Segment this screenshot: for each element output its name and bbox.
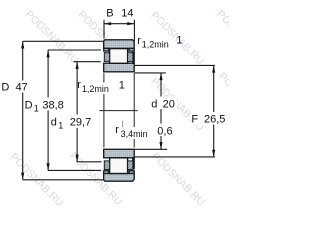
d bottom extension line <box>135 148 167 150</box>
center axis line <box>99 110 138 112</box>
label F 26,5 <box>191 113 225 125</box>
svg-text:0,6: 0,6 <box>157 125 172 137</box>
label r1,2min 1 top right <box>137 35 182 50</box>
d down arrow <box>159 142 162 149</box>
D bottom extension line <box>23 179 104 181</box>
label d 20 <box>151 99 175 111</box>
watermark PODSNAB.RU bottom-mid <box>67 150 125 208</box>
watermark PODSNAB.RU bottom-right <box>149 150 207 208</box>
left face bore line <box>103 73 105 147</box>
F down arrow <box>212 150 215 157</box>
svg-text:F: F <box>191 113 198 125</box>
svg-text:D: D <box>1 82 9 94</box>
d top extension line <box>135 72 166 74</box>
watermark PODSNAB.RU bottom-left <box>7 151 65 209</box>
svg-text:r: r <box>115 124 119 136</box>
svg-text:B: B <box>106 8 113 20</box>
B right arrow <box>127 22 134 25</box>
F top extension line <box>135 64 215 66</box>
B left arrow <box>104 22 111 25</box>
outer ring left flange (upper) <box>104 48 109 51</box>
cage bar right (lower) <box>128 161 133 170</box>
B right extension line <box>133 20 135 41</box>
D up arrow <box>21 41 24 48</box>
label 0,6 <box>157 125 172 137</box>
svg-text:1: 1 <box>119 80 125 92</box>
svg-text:29,7: 29,7 <box>70 116 91 128</box>
outer ring left flange (lower) <box>104 171 109 174</box>
F up arrow <box>212 65 215 72</box>
inner ring right flange sliver (lower) <box>133 158 134 169</box>
outer ring right flange (upper) <box>129 48 134 51</box>
D1 top extension line <box>48 49 101 51</box>
svg-text:d: d <box>151 99 157 111</box>
watermark PODSNAB.RU top corner <box>214 8 272 66</box>
r3,4 leader tick <box>122 121 124 128</box>
svg-text:1: 1 <box>58 120 63 130</box>
svg-text:r: r <box>77 79 81 91</box>
right face bore line <box>133 73 135 147</box>
watermark PODSNAB.RU mid <box>148 76 206 134</box>
outer ring upper section <box>104 40 135 49</box>
cage bar left (upper) <box>104 53 109 62</box>
D top extension line <box>23 40 104 42</box>
watermark PODSNAB.RU top-mid <box>75 9 133 67</box>
watermark PODSNAB.RU mid-right <box>216 70 274 128</box>
d1 bottom extension line <box>77 161 102 163</box>
d1 top extension line <box>74 61 101 63</box>
D1 bottom extension line <box>48 169 101 171</box>
svg-text:14: 14 <box>121 8 133 20</box>
cage bar right (upper) <box>128 53 133 62</box>
svg-text:3,4min: 3,4min <box>121 129 148 139</box>
d dimension line <box>160 73 162 149</box>
watermark PODSNAB.RU top-right <box>148 9 206 67</box>
B dimension line <box>104 23 134 25</box>
F bottom extension line <box>135 156 215 158</box>
svg-text:1,2min: 1,2min <box>82 84 109 94</box>
outer ring lower section <box>104 174 135 182</box>
svg-text:d: d <box>51 116 57 128</box>
F dimension line <box>213 65 215 156</box>
svg-text:38,8: 38,8 <box>42 99 63 111</box>
svg-text:r: r <box>137 35 141 47</box>
d1 up arrow <box>76 62 79 69</box>
D dimension line <box>22 41 24 180</box>
label D1 38,8 <box>25 99 64 113</box>
D1 dimension line <box>47 50 49 170</box>
d up arrow <box>159 73 162 80</box>
svg-text:20: 20 <box>163 99 175 111</box>
svg-text:47: 47 <box>16 82 28 94</box>
label r3,4min <box>115 124 147 139</box>
label D 47 <box>1 82 27 94</box>
svg-text:1: 1 <box>34 103 39 113</box>
B left extension line <box>103 20 105 39</box>
svg-text:D: D <box>25 99 33 111</box>
D1 down arrow <box>47 163 50 170</box>
D down arrow <box>21 173 24 180</box>
inner ring upper section <box>104 63 135 72</box>
outer ring right flange (lower) <box>129 171 134 174</box>
roller (lower) <box>110 158 128 174</box>
svg-text:1,2min: 1,2min <box>142 40 169 50</box>
cage bar left (lower) <box>104 161 109 170</box>
d1 dimension line <box>76 62 78 162</box>
label d1 29,7 <box>51 116 91 130</box>
watermark PODSNAB.RU top-left <box>23 8 81 66</box>
svg-text:1: 1 <box>176 35 182 47</box>
label r1,2min 1 left <box>77 79 125 94</box>
label B 14 <box>106 8 133 20</box>
inner ring right flange sliver (upper) <box>133 52 134 63</box>
roller (upper) <box>110 49 128 64</box>
svg-text:26,5: 26,5 <box>204 113 225 125</box>
D1 up arrow <box>47 50 50 57</box>
label background gaps <box>15 81 229 140</box>
d1 down arrow <box>76 155 79 162</box>
inner ring lower section <box>104 149 135 158</box>
